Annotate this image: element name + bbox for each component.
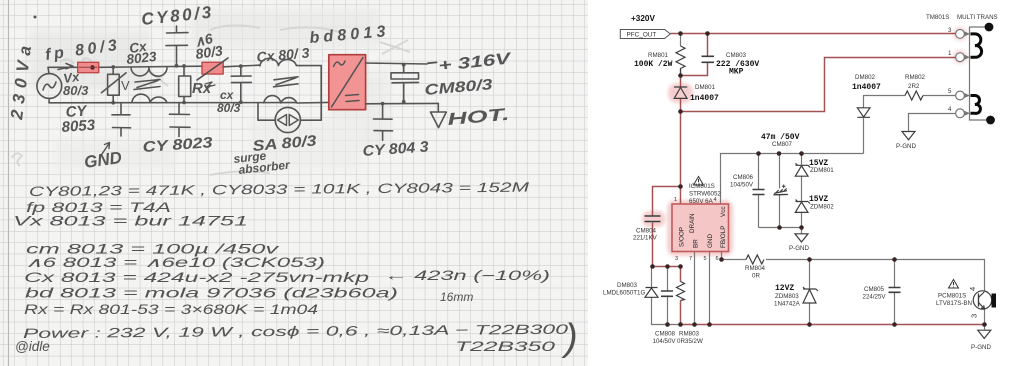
wire bridge + output <box>366 63 427 64</box>
svg-text:8023: 8023 <box>126 49 158 67</box>
svg-text:1: 1 <box>948 50 952 57</box>
wire opto emitter to rail <box>984 309 986 331</box>
svg-text:1N4742A: 1N4742A <box>774 301 801 308</box>
svg-text:15VZ: 15VZ <box>809 159 828 168</box>
wire RM801 leads <box>680 34 682 76</box>
node cm8013 bottom <box>402 100 406 104</box>
svg-text:ZDM801: ZDM801 <box>810 167 834 174</box>
svg-text:5: 5 <box>948 88 952 95</box>
minus tick at +316V <box>428 61 437 64</box>
wire CM808 branch <box>667 267 669 325</box>
varistor VX8013 <box>101 67 126 103</box>
component symbols (black) <box>645 46 991 338</box>
resistor RX tall box <box>179 66 191 103</box>
svg-text:RM801: RM801 <box>648 52 669 59</box>
capacitor CM806 <box>753 190 765 195</box>
wire mains bottom lead <box>49 99 296 103</box>
node rx bottom <box>182 101 186 105</box>
svg-text:Rx: Rx <box>192 80 212 97</box>
capacitor CM808 <box>661 291 673 296</box>
diode DM801 <box>674 87 687 98</box>
svg-text:4: 4 <box>948 106 952 113</box>
wire zener branch <box>801 154 803 228</box>
ground P-GND vcc area <box>795 234 808 242</box>
svg-text:1n4007: 1n4007 <box>690 94 719 103</box>
inductor L2 bottom winding choke2 <box>264 96 329 103</box>
node fb rm804 zd <box>807 257 812 262</box>
svg-text:7: 7 <box>689 256 692 262</box>
capacitor CY8013 above rail <box>166 26 188 66</box>
winding aux <box>971 96 981 114</box>
resistor RM801 <box>676 46 685 74</box>
svg-text:47m /50V: 47m /50V <box>761 133 800 142</box>
wire top rail segment A <box>100 66 203 67</box>
svg-text:Cx 8013 = 424u-x2 -275vn-mkp: Cx 8013 = 424u-x2 -275vn-mkp <box>24 270 370 285</box>
warning triangle IC <box>694 177 704 186</box>
capacitor CY8023a below rail <box>170 103 191 137</box>
pink highlight halos <box>642 27 967 256</box>
svg-text:CM803: CM803 <box>726 52 747 59</box>
svg-text:15VZ: 15VZ <box>809 195 828 204</box>
surge absorber SA8013 leads <box>258 66 321 121</box>
paper smudges <box>30 8 390 170</box>
node fuse-varistor junction <box>111 65 115 69</box>
svg-text:650V 6A: 650V 6A <box>689 198 714 205</box>
ntc N6-8013 in series (red box) <box>197 58 228 87</box>
resistor RM803 <box>677 282 685 301</box>
capacitor CY8053 to gnd <box>112 103 131 136</box>
wire BR pin <box>694 252 696 325</box>
svg-text:GND: GND <box>707 234 714 248</box>
svg-text:cx: cx <box>220 88 235 102</box>
wire ZDM803 branch <box>809 260 811 325</box>
node vcc rail joins <box>756 151 761 156</box>
faint ghost marks <box>12 25 410 175</box>
core lines choke <box>134 80 160 90</box>
wire RM803 bottom lead <box>680 301 682 325</box>
wire CM803 branch <box>681 34 708 76</box>
transformer rail <box>970 27 992 120</box>
svg-text:4: 4 <box>968 287 977 291</box>
node rx top <box>182 64 186 68</box>
node vcc sub rail joins <box>777 225 782 230</box>
svg-text:1n4007: 1n4007 <box>852 83 881 92</box>
svg-text:P-GND: P-GND <box>971 344 991 351</box>
capacitor CM805 <box>889 288 901 293</box>
wire DM803 branch <box>652 267 681 325</box>
wire DM801 cathode to drain <box>680 99 682 205</box>
wire arrow on phase <box>58 64 73 70</box>
svg-text:0R35/2W: 0R35/2W <box>677 338 703 345</box>
svg-text:6: 6 <box>716 256 719 262</box>
white gap between pages <box>588 0 612 366</box>
wire mains top lead <box>48 67 78 73</box>
wire S/OOP node <box>653 266 681 268</box>
zener ZDM802 <box>795 200 810 213</box>
svg-text:FB/OLP: FB/OLP <box>720 226 727 248</box>
grey nets <box>652 34 985 331</box>
bridge rectifier BD8013 <box>329 55 366 110</box>
wire net PFC_OUT top rail <box>670 33 955 35</box>
node cm8013 top <box>402 63 406 67</box>
wire vcc sub ground rail <box>759 228 802 234</box>
inductor L1 top winding choke <box>131 67 167 76</box>
wire Vcc rail <box>721 154 864 205</box>
svg-text:S/OOP: S/OOP <box>679 227 686 247</box>
svg-text:DM802: DM802 <box>855 74 876 81</box>
fuse FP8013 <box>78 62 99 72</box>
gnd arrow <box>100 143 110 158</box>
wire RM803 top lead <box>680 267 682 282</box>
capacitor CY8043 <box>374 104 393 141</box>
node pfc-cm803 <box>705 31 710 36</box>
svg-text:BR: BR <box>693 239 700 248</box>
svg-text:Vx 8013 = bur 14751: Vx 8013 = bur 14751 <box>13 214 248 229</box>
svg-text:RM804: RM804 <box>745 265 766 272</box>
left page paper background <box>0 0 597 366</box>
node varistor bottom <box>111 101 115 105</box>
inductor L2 top winding choke2 <box>260 58 321 66</box>
wire top rail segment B <box>223 65 259 67</box>
svg-text:0R: 0R <box>752 273 760 280</box>
capacitor CM803 <box>702 56 715 62</box>
svg-text:← 423n (−10%): ← 423n (−10%) <box>384 268 550 283</box>
node dm801 cathode <box>678 109 683 114</box>
svg-text:LTV817S-BN: LTV817S-BN <box>936 300 972 307</box>
svg-text:4: 4 <box>714 197 717 203</box>
svg-text:@idle: @idle <box>15 339 50 354</box>
core lines choke2 <box>274 77 299 87</box>
svg-text:3: 3 <box>948 27 952 34</box>
wire snubber return to pin 1 <box>681 58 956 112</box>
svg-text:PFC_OUT: PFC_OUT <box>627 32 657 39</box>
svg-text:Rx = Rx 801-53 = 3×680K = 1m04: Rx = Rx 801-53 = 3×680K = 1m04 <box>24 302 318 317</box>
optocoupler PCM801S <box>973 291 996 309</box>
wire bridge - output <box>366 102 439 104</box>
svg-text:DM801: DM801 <box>695 84 716 91</box>
svg-text:CM805: CM805 <box>864 286 885 293</box>
node rm801 bottom <box>678 73 683 78</box>
svg-text:T22B350: T22B350 <box>455 339 556 354</box>
svg-text:MULTI TRANS: MULTI TRANS <box>957 14 998 21</box>
IC ICM801S STRW6052 <box>672 197 729 262</box>
svg-text:80/3: 80/3 <box>63 83 89 98</box>
svg-text:104/50V: 104/50V <box>653 338 677 345</box>
node pfc-rm801 <box>678 31 683 36</box>
paper margin line <box>8 0 10 366</box>
resistor RM802 <box>905 91 923 100</box>
right-side text labels <box>603 14 998 351</box>
svg-text:12VZ: 12VZ <box>775 284 794 293</box>
wire CM807 branch <box>779 154 781 228</box>
svg-text:PCM801S: PCM801S <box>938 293 966 300</box>
zener ZDM801 <box>795 163 810 176</box>
wire CM804 branch <box>653 187 681 267</box>
ground P-GND bottom right <box>978 330 991 338</box>
node cy8043 top <box>381 102 385 106</box>
svg-text:3: 3 <box>970 314 979 318</box>
wire FB/OLP net <box>722 252 985 292</box>
node cm804 split <box>678 184 683 189</box>
red nets <box>653 34 985 325</box>
svg-text:CM806: CM806 <box>733 174 754 181</box>
svg-text:ZDM802: ZDM802 <box>810 204 834 211</box>
svg-text:P-GND: P-GND <box>896 143 916 150</box>
svg-text:MKP: MKP <box>729 68 744 77</box>
node top rail CY8013 stem <box>175 64 179 68</box>
node cx8013 top <box>239 64 243 68</box>
svg-text:Vcc: Vcc <box>720 207 727 218</box>
capacitor CM807 electrolytic hatched plate <box>774 188 787 193</box>
diode DM803 <box>645 288 658 298</box>
svg-text:bd 8013 = mola 97036 (d23b60a): bd 8013 = mola 97036 (d23b60a) <box>25 286 398 301</box>
PFC_OUT tag <box>620 30 670 39</box>
node s-oop <box>650 264 655 269</box>
ground HOT triangle <box>431 103 447 127</box>
svg-text:224/25V: 224/25V <box>863 294 887 301</box>
svg-text:100K /2W: 100K /2W <box>634 60 673 69</box>
surge absorber SA8013 <box>275 107 300 132</box>
svg-text:ZDM803: ZDM803 <box>775 293 799 300</box>
node ground rail joins <box>665 322 670 327</box>
svg-text:CM808: CM808 <box>655 331 676 338</box>
resistor RM804 <box>746 255 764 264</box>
winding primary <box>971 34 982 57</box>
svg-text:5: 5 <box>704 256 707 262</box>
svg-text:RM803: RM803 <box>679 331 700 338</box>
wire CM806 branch <box>758 154 760 228</box>
svg-text:3: 3 <box>675 256 678 262</box>
ac source VX mains <box>37 74 62 99</box>
wire CM805 branch <box>894 260 896 325</box>
svg-text:STRW6052: STRW6052 <box>689 191 721 198</box>
diode DM802 <box>857 108 870 118</box>
svg-text:+320V: +320V <box>631 14 655 23</box>
svg-text:V: V <box>121 78 130 93</box>
svg-text:LMDL6050T1G: LMDL6050T1G <box>603 290 645 297</box>
svg-text:8053: 8053 <box>61 117 96 136</box>
wire DM802 branch <box>864 96 956 154</box>
capacitor CX8013 between rails <box>231 66 251 102</box>
svg-text:104/50V: 104/50V <box>730 182 754 189</box>
ground P-GND under pin4 <box>902 132 915 140</box>
ink dot top-left <box>34 16 37 19</box>
wire source ground rail <box>681 324 985 326</box>
svg-text:∧6 8013 = ∧6e10 (3CK053): ∧6 8013 = ∧6e10 (3CK053) <box>25 255 325 270</box>
svg-text:DRAIN: DRAIN <box>689 213 696 233</box>
inductor L1 bottom winding choke <box>132 94 167 102</box>
svg-text:16mm: 16mm <box>440 290 473 304</box>
svg-text:DM803: DM803 <box>617 282 638 289</box>
zener ZDM803 <box>803 287 818 303</box>
capacitor CM804 <box>645 216 661 222</box>
capacitor CM8013 bulk <box>391 65 419 102</box>
svg-text:2R2: 2R2 <box>908 83 920 90</box>
node cx8013 bottom <box>239 100 243 104</box>
svg-text:RM802: RM802 <box>905 74 926 81</box>
polarity dots <box>985 23 994 32</box>
wire GND pin <box>709 252 711 325</box>
svg-text:TM801S: TM801S <box>926 14 949 21</box>
svg-text:80/3: 80/3 <box>217 101 241 115</box>
transformer TM801S <box>956 23 995 125</box>
svg-text:P-GND: P-GND <box>789 245 809 252</box>
svg-text:1: 1 <box>674 197 677 203</box>
svg-text:ICM801S: ICM801S <box>689 183 715 190</box>
wire DM801 anode <box>680 76 682 87</box>
svg-text:CM804: CM804 <box>636 228 657 235</box>
svg-text:221/1KV: 221/1KV <box>633 235 658 242</box>
primary pins 3 and 1 <box>956 30 965 118</box>
svg-text:CM807: CM807 <box>772 141 793 148</box>
node fb pin corner <box>719 257 724 262</box>
wire pin4 to P-GND <box>909 114 956 132</box>
warning triangle opto <box>949 280 959 289</box>
